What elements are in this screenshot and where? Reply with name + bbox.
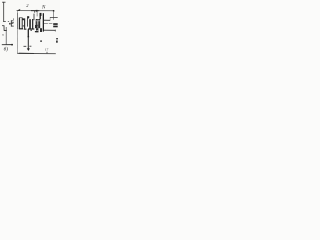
- small blob below nut: [30, 30, 32, 31]
- arrow end of lower-left dimension: [11, 44, 13, 46]
- cylinder bottom edge: [44, 29, 56, 31]
- small dash left of E glyph: [8, 21, 9, 23]
- centerline right dashes: [44, 22, 48, 24]
- dimension dash right at y46: [29, 45, 31, 47]
- gasket bottom bar: [24, 29, 27, 30]
- tick above bottom line right: [46, 52, 49, 54]
- vertical edge line right of light strip: [26, 18, 28, 27]
- gasket dark bar: [24, 18, 25, 28]
- arrowhead left of top dimension: [17, 9, 21, 11]
- rod end upper bar: [53, 23, 58, 25]
- lower-left horizontal dimension line: [2, 44, 13, 46]
- channel middle tall bar top blob: [40, 13, 42, 16]
- plate (left washer) left edge bar: [19, 18, 20, 29]
- bottom tick of left dimension: [3, 20, 6, 22]
- label glyph cluster lower-left (letter-like): [2, 25, 4, 27]
- plate top edge: [19, 17, 23, 19]
- dot left of centerline start: [9, 23, 11, 25]
- cylinder bottom end tick: [54, 30, 56, 32]
- arrowhead middle tick: [33, 11, 36, 12]
- svg-text:17: 17: [45, 48, 49, 52]
- extension line x53.5: [53, 11, 55, 20]
- stud foot widening: [28, 36, 30, 37]
- centerline left dashes: [12, 21, 14, 23]
- lower dark block left: [35, 25, 38, 28]
- interior white seam horizontal: [36, 20, 40, 23]
- interior hatch block upper: [36, 19, 39, 25]
- bottom dimension line: [17, 52, 56, 54]
- dimension dash left at y46: [24, 45, 27, 47]
- nut strip B: [32, 19, 33, 29]
- svg-text:б): б): [4, 46, 9, 53]
- junction dot at right end of top dimension: [53, 10, 54, 12]
- lower-left extension vertical: [5, 27, 7, 45]
- cylinder step vertical: [49, 18, 51, 21]
- small mark far right lower: [56, 41, 58, 43]
- speck above E label: [12, 19, 15, 20]
- top serif of left dimension: [2, 1, 5, 3]
- extension line x17 full height: [16, 11, 18, 54]
- dimension line top: [17, 10, 54, 12]
- extension line x37 short: [36, 11, 38, 17]
- nut bottom bar: [28, 28, 34, 29]
- plate bottom thick bar: [19, 28, 23, 29]
- plate right edge bar: [22, 18, 23, 29]
- leader line down from stud: [27, 37, 29, 48]
- channel middle bar lower part: [38, 19, 40, 28]
- channel middle tall bar upper part: [40, 14, 41, 20]
- cylinder top edge right high: [50, 17, 58, 19]
- light strip: [25, 18, 27, 28]
- arrowhead blob right end of first span: [36, 10, 38, 12]
- small mark far right upper: [56, 38, 58, 39]
- interior dark blob top: [36, 19, 38, 21]
- channel right edge tall bar: [43, 13, 44, 31]
- foot block A: [36, 28, 38, 32]
- stud shank protruding below (thick): [27, 29, 29, 37]
- arrow blob at bottom of leader: [27, 48, 30, 51]
- nut strip A: [29, 19, 31, 29]
- rod end lower bar: [53, 26, 58, 28]
- gasket inner dash: [23, 25, 24, 26]
- small blob below cylinder left: [40, 40, 42, 42]
- svg-text:N: N: [41, 6, 46, 11]
- stud end bump above stack: [27, 16, 29, 18]
- cylinder top edge step low: [44, 19, 51, 21]
- foot white seam: [36, 29, 38, 32]
- gasket dark top corner: [22, 18, 24, 20]
- channel left edge (short, upper): [33, 14, 35, 21]
- bottom dimension line darker middle: [19, 52, 34, 54]
- foot block B: [40, 28, 42, 32]
- small dash mid lower-left: [2, 34, 4, 36]
- dimension line top dark middle segment: [31, 10, 39, 12]
- interior white seam vertical: [36, 20, 39, 25]
- extension line x17 darker upper segment: [16, 13, 18, 29]
- small E-like label glyph: [10, 20, 12, 26]
- left vertical dimension line: [3, 2, 5, 22]
- bottom bar under feet: [35, 31, 39, 32]
